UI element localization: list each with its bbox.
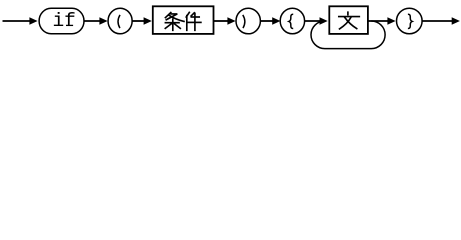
wire: ) -> { <box>261 20 274 22</box>
arrowheads (solid) <box>29 17 460 25</box>
wire: } -> end <box>422 20 453 22</box>
wire: 条件 -> ) <box>214 20 229 22</box>
terminal ellipse: ) <box>236 8 260 34</box>
svg-text:if: if <box>52 10 75 32</box>
arrowhead into { <box>272 17 280 25</box>
nonterminal box: 条件 <box>153 6 214 34</box>
glyph ) <box>243 15 245 28</box>
arrowhead into ( <box>99 17 107 25</box>
arrowhead into if <box>29 17 37 25</box>
arrowhead into 条件 <box>144 17 152 25</box>
wire: ( -> 条件 <box>133 20 145 22</box>
wire: start line <box>3 20 31 22</box>
railroad syntax diagram: if ( 条件 ) { 文 } <box>0 0 461 55</box>
glyph } <box>408 14 412 28</box>
glyph ( <box>118 15 120 28</box>
terminal ellipse: { <box>280 8 304 34</box>
terminal ellipse: } <box>397 8 423 34</box>
glyph 文 (hand drawn) <box>339 12 360 29</box>
glyph { <box>289 14 293 28</box>
glyph 件 (hand drawn) <box>186 12 201 30</box>
arrowhead into } <box>387 17 395 25</box>
terminal stadium: if <box>39 8 84 34</box>
wire: 文 -> } <box>368 20 389 22</box>
arrowhead into ) <box>227 17 235 25</box>
arrowhead into 文 <box>320 17 328 25</box>
wire: { -> 文 <box>305 20 321 22</box>
glyph 条 (hand drawn) <box>165 13 184 31</box>
f bottom serif <box>66 24 73 26</box>
arrowhead end <box>452 17 460 25</box>
terminal ellipse: ( <box>108 8 132 34</box>
nonterminal box: 文 <box>329 6 368 34</box>
loop (repeat) under 文 <box>311 21 385 49</box>
wire: if -> ( <box>84 20 101 22</box>
